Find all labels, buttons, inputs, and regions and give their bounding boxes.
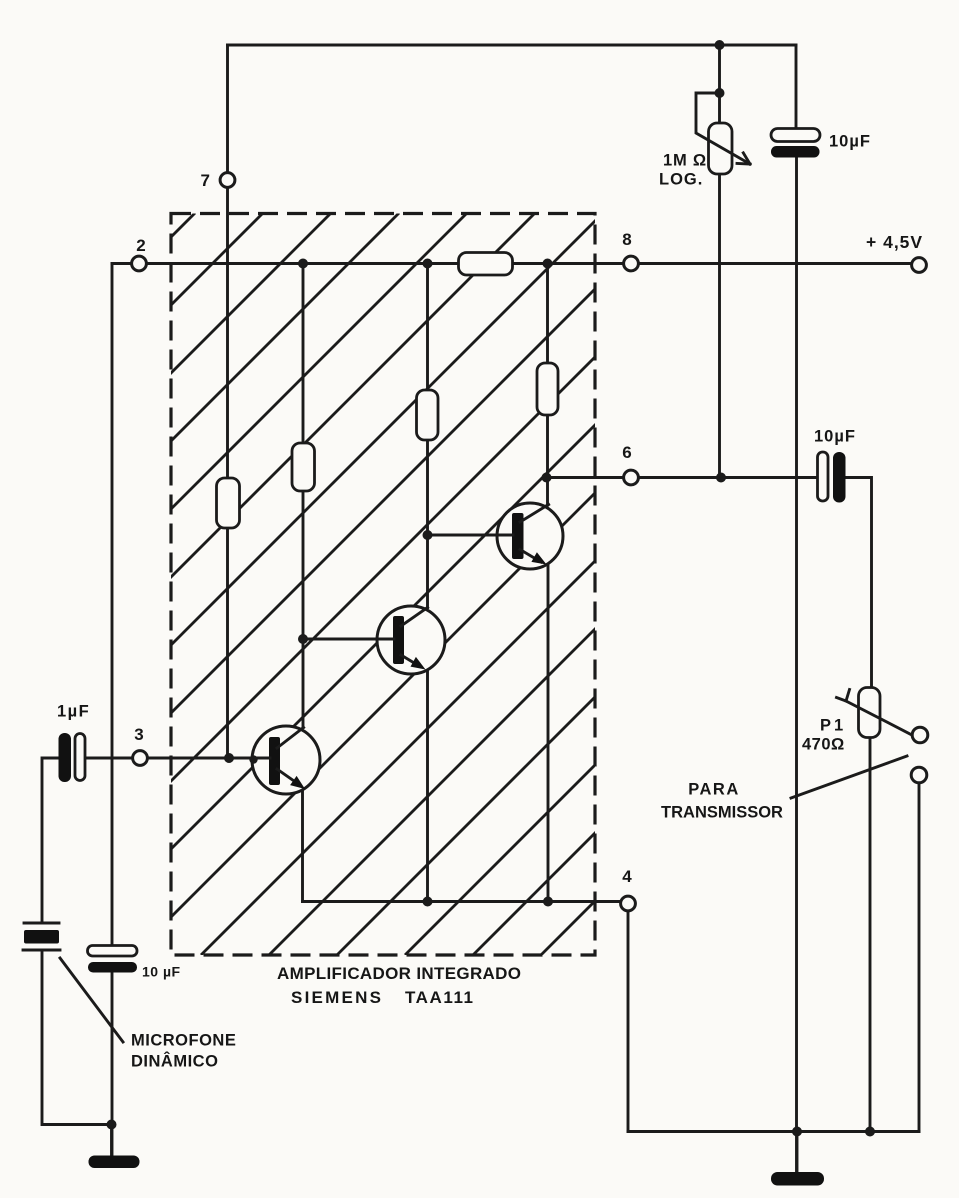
wire: R2 bottom to Q1 collector bbox=[302, 491, 305, 727]
terminal pin 4 bbox=[621, 896, 636, 911]
node: emitter bus / Q2 bbox=[423, 897, 433, 907]
wire: pin7 vertical upper bbox=[226, 45, 229, 173]
transistor Q3 bbox=[496, 503, 563, 569]
resistor RA (pin7 to Q1 base) bbox=[217, 478, 240, 528]
capacitor C1 1uF (input coupling) bbox=[59, 733, 86, 782]
svg-text:TAA111: TAA111 bbox=[405, 988, 473, 1007]
wire: P1 bottom lead to bus bbox=[869, 738, 872, 1132]
wire: R2 top to rail bbox=[302, 264, 305, 444]
svg-text:+ 4,5V: + 4,5V bbox=[866, 232, 923, 252]
wire: Q3 collector diagonal bbox=[521, 505, 549, 523]
svg-text:6: 6 bbox=[622, 443, 631, 462]
svg-text:DINÂMICO: DINÂMICO bbox=[131, 1052, 218, 1071]
node: Q2 base tee bbox=[298, 634, 308, 644]
wire: C4 ground stub bbox=[110, 1125, 113, 1157]
potentiometer P1 body bbox=[859, 688, 881, 738]
node: emitter bus / Q3 bbox=[543, 897, 553, 907]
wire: pin7 vertical into IC to RA bbox=[226, 188, 229, 479]
svg-text:4: 4 bbox=[622, 867, 632, 886]
wire: Q1 base from pin3 bbox=[148, 757, 270, 760]
capacitor C2 10uF (top right, horizontal plates) bbox=[771, 129, 820, 158]
ground (right) bbox=[771, 1172, 824, 1186]
terminal pin 3 bbox=[133, 751, 148, 766]
terminal pin 6 bbox=[624, 470, 639, 485]
IC hatching bbox=[0, 213, 959, 955]
wire: Q3 base row bbox=[428, 534, 513, 537]
svg-text:1µF: 1µF bbox=[57, 703, 90, 721]
wire: +V rail left part (pin2 to R1) bbox=[112, 262, 459, 265]
wire: R3 top to rail bbox=[426, 264, 429, 391]
wire: output terminal 2 down to bus bbox=[918, 783, 921, 1132]
P1 wiper arrow to output terminal bbox=[846, 701, 911, 735]
resistor R2 (Q1 collector load) bbox=[292, 443, 315, 491]
wire: Q1 collector diagonal bbox=[278, 728, 304, 749]
node: Q1 base tee bbox=[224, 753, 234, 763]
terminal pin 7 bbox=[220, 173, 235, 188]
svg-text:2: 2 bbox=[136, 236, 145, 255]
terminal output upper bbox=[912, 727, 928, 743]
node: rail / R4 bbox=[543, 259, 553, 269]
wire: +V rail right part (R1 to +4,5V) bbox=[513, 262, 912, 265]
wire: pin4 down to bottom bus bbox=[627, 911, 630, 1132]
svg-text:10µF: 10µF bbox=[814, 428, 856, 446]
wire: R4 top to rail bbox=[546, 264, 549, 364]
svg-text:PARA: PARA bbox=[688, 781, 740, 799]
wire: C2 bottom lead down to ground bbox=[795, 157, 798, 1172]
terminal output lower bbox=[911, 767, 927, 783]
wire: Q2 collector diagonal bbox=[402, 608, 428, 627]
wire: bottom ground bus bbox=[628, 1130, 919, 1133]
wire: Q3 emitter down bbox=[547, 565, 550, 902]
svg-text:SIEMENS: SIEMENS bbox=[291, 988, 381, 1007]
wire: 1M pot bottom lead to pin6 row bbox=[718, 174, 721, 478]
svg-text:8: 8 bbox=[622, 230, 631, 249]
node: pin6 / 1M pot bottom bbox=[716, 473, 726, 483]
wire: C4 to ground bbox=[111, 973, 114, 1157]
svg-text:3: 3 bbox=[134, 725, 143, 744]
transistor Q1 bbox=[251, 726, 320, 794]
wire: right ground stub bbox=[796, 1132, 799, 1173]
terminal pin 2 bbox=[132, 256, 147, 271]
svg-text:7: 7 bbox=[201, 171, 210, 190]
terminal pin 8 bbox=[624, 256, 639, 271]
wire: RA to Q1 base row bbox=[226, 528, 229, 758]
resistor R3 (Q2 collector load) bbox=[417, 390, 439, 440]
wire: internal emitter bus to pin4 bbox=[303, 900, 621, 903]
node: rail / R3 bbox=[423, 259, 433, 269]
wire: mic bottom to ground row bbox=[42, 950, 111, 1125]
potentiometer 1M LOG body bbox=[709, 123, 733, 174]
pointer line to microphone label bbox=[60, 958, 123, 1042]
wire: pin2 branch down to C4 bbox=[111, 264, 114, 946]
wire: C1 to pin3 bbox=[85, 757, 133, 760]
wire: R4 bottom to Q3 collector bbox=[546, 415, 549, 505]
capacitor C3 10uF (output coupling, vertical plates) bbox=[818, 452, 846, 503]
svg-text:10µF: 10µF bbox=[829, 133, 871, 151]
node: Q1 base at circle edge bbox=[249, 755, 257, 763]
wire: top feedback wire pin7 to C2 bbox=[228, 44, 797, 47]
wire: C3 to P1 top corner bbox=[846, 478, 872, 688]
node: bottom bus / C2 ground leg bbox=[792, 1127, 802, 1137]
wire: mic corner to C1 bbox=[42, 758, 59, 923]
node: mic / C4 ground row bbox=[107, 1120, 117, 1130]
resistor R4 (Q3 collector load) bbox=[537, 363, 558, 415]
terminal +4,5V bbox=[912, 258, 927, 273]
wire: Q1 emitter down bbox=[301, 790, 304, 902]
microphone element bbox=[23, 923, 60, 950]
wire: R3 bottom to Q2 collector bbox=[426, 440, 429, 608]
svg-text:1M Ω: 1M Ω bbox=[663, 152, 707, 170]
wire: C2 top lead bbox=[795, 45, 798, 129]
IC dashed outline box bbox=[171, 214, 595, 956]
ground (left) bbox=[89, 1156, 140, 1169]
1M wiper loop and arrow bbox=[696, 93, 750, 164]
capacitor C4 10uF (mic decoupling) bbox=[88, 946, 138, 973]
svg-text:P1: P1 bbox=[820, 717, 846, 735]
svg-text:MICROFONE: MICROFONE bbox=[131, 1032, 236, 1050]
node: Q3 base tee bbox=[423, 530, 433, 540]
node: junction top wire / 1M pot bbox=[715, 40, 725, 50]
node: 1M wiper tap bbox=[715, 88, 725, 98]
svg-text:10 µF: 10 µF bbox=[142, 964, 181, 980]
wire: Q2 base row bbox=[303, 638, 393, 641]
resistor R1 (series in rail) bbox=[459, 253, 513, 276]
transistor Q2 bbox=[376, 606, 445, 674]
svg-text:LOG.: LOG. bbox=[659, 171, 703, 189]
node: bottom bus / P1 bbox=[865, 1127, 875, 1137]
wire: pin6 output row bbox=[547, 476, 818, 479]
pointer line to transmissor terminals bbox=[791, 756, 907, 798]
wire: Q2 emitter down bbox=[426, 670, 429, 902]
node: pin6 collector tee bbox=[542, 473, 552, 483]
svg-text:470Ω: 470Ω bbox=[802, 736, 845, 754]
node: rail / R2 bbox=[298, 259, 308, 269]
wire: 1M pot top lead bbox=[718, 45, 721, 123]
svg-text:AMPLIFICADOR INTEGRADO: AMPLIFICADOR INTEGRADO bbox=[277, 964, 521, 983]
svg-text:TRANSMISSOR: TRANSMISSOR bbox=[661, 804, 783, 822]
